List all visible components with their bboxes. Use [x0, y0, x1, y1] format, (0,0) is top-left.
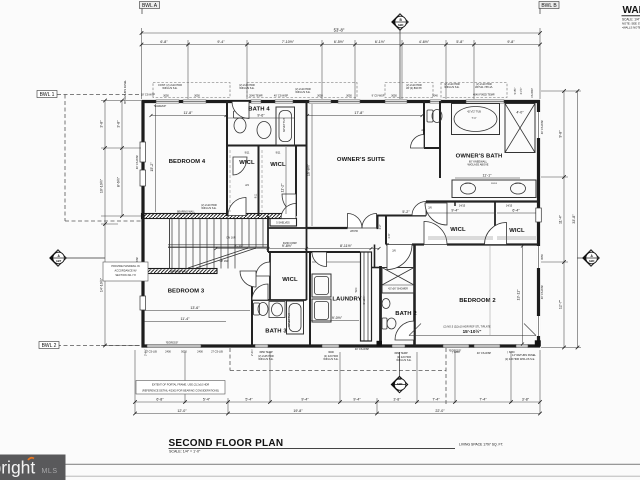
svg-text:W/FLUS S.E.: W/FLUS S.E.: [295, 90, 310, 94]
window: top wall 3050 bedroom4 left: [156, 100, 179, 104]
door: bath4 entry: [232, 102, 249, 119]
wall legend top-right clipped: [622, 5, 640, 29]
marker: A left: [50, 250, 105, 266]
svg-text:3'-2": 3'-2": [379, 224, 382, 229]
wall: WICL1/WICL2 divider vertical: [258, 146, 260, 217]
dashed: garage outline below right vertical: [445, 348, 447, 405]
wall: owners suite bottom left segment: [307, 227, 348, 229]
svg-text:9'-4": 9'-4": [217, 40, 225, 44]
svg-text:2'-0¾": 2'-0¾": [250, 349, 254, 356]
svg-text:WICL: WICL: [239, 160, 255, 166]
svg-text:8'-10": 8'-10": [234, 244, 244, 248]
svg-text:5050: 5050: [181, 350, 187, 354]
svg-text:BEDROOM 2: BEDROOM 2: [459, 298, 496, 304]
svg-text:10'-10½": 10'-10½": [100, 178, 104, 193]
svg-text:5'-0½": 5'-0½": [513, 87, 517, 94]
svg-text:CS-WSP: CS-WSP: [531, 88, 534, 98]
door: owners suite double right leaf: [362, 214, 377, 229]
svg-text:9/11: 9/11: [245, 151, 250, 155]
svg-text:15'-2": 15'-2": [150, 162, 154, 172]
svg-text:9'-4": 9'-4": [353, 398, 361, 402]
small ticks on interior dims: [150, 114, 525, 346]
svg-text:WDW: WDW: [465, 183, 472, 185]
svg-text:27 CS-LIB: 27 CS-LIB: [145, 350, 157, 354]
door: bedroom4 entry: [228, 198, 246, 216]
window: top wall 4040 fixed temp owners bath: [466, 100, 504, 104]
svg-text:3050: 3050: [391, 94, 397, 98]
note box: provide handrail: [103, 262, 148, 281]
laundry counter line: [312, 261, 360, 263]
svg-text:40' CS-WSP: 40' CS-WSP: [135, 155, 139, 170]
wall: WICL band divider vertical: [494, 202, 496, 245]
wall: WC left vertical: [423, 101, 425, 148]
svg-text:30"x60" TUB: 30"x60" TUB: [288, 313, 291, 327]
svg-text:8'-6½": 8'-6½": [117, 176, 121, 187]
svg-text:6'-1½": 6'-1½": [375, 40, 386, 44]
svg-text:BEARING WALL: BEARING WALL: [177, 210, 196, 213]
interior dimensions: [144, 104, 536, 344]
wall: vestibule south wall y=215.5: [378, 215, 427, 217]
stairs: middle rail line: [168, 246, 268, 248]
bath2 toilet: [382, 318, 387, 329]
window: bottom wall 3050 bedroom2 left: [443, 344, 469, 348]
wall: jog vertical down to corridor: [385, 216, 387, 245]
svg-text:7'-1": 7'-1": [471, 116, 476, 120]
door: linen closet: [281, 204, 296, 219]
svg-text:22'-0": 22'-0": [435, 409, 445, 413]
svg-text:WICL: WICL: [509, 228, 525, 234]
svg-text:*EGRESS*: *EGRESS*: [166, 340, 179, 344]
bath3 tub: [287, 301, 304, 334]
svg-text:15'-10½": 15'-10½": [463, 328, 482, 334]
bath4 tub: [276, 107, 295, 145]
svg-text:| 3050: | 3050: [452, 350, 460, 354]
svg-text:BEDROOM 3: BEDROOM 3: [168, 289, 205, 295]
svg-text:53'-8": 53'-8": [334, 28, 345, 33]
wall: laundry / bath2 plumbing wall: [361, 252, 372, 341]
svg-text:4'-0": 4'-0": [516, 111, 524, 115]
svg-text:DN 16R: DN 16R: [226, 236, 235, 240]
window: bottom wall 3050 bedroom2 right: [474, 344, 500, 348]
marker: B top: [392, 14, 408, 99]
door: bedroom3 entry: [240, 271, 256, 287]
stairs: lower flight treads: [171, 247, 173, 269]
bath2 sink: [382, 299, 390, 309]
wall: wicl3 left vertical: [269, 252, 271, 300]
dim: top extension lines: [141, 28, 143, 99]
wall: bath4 bottom horizontal: [227, 145, 306, 147]
dashed: first floor outline left horizontal: [65, 220, 141, 222]
label: BWL A: [140, 2, 160, 15]
svg-text:6'-8": 6'-8": [156, 398, 164, 402]
doors: [228, 102, 507, 341]
window: bottom wall 3060 temp bath2: [392, 344, 405, 348]
svg-text:EXTENT OF PORTAL FRAME. USE (2: EXTENT OF PORTAL FRAME. USE (2) 2x10 HDR: [152, 383, 210, 387]
bath4 sink: [257, 122, 271, 139]
svg-text:14/15: 14/15: [506, 204, 513, 208]
svg-text:ABD: ABD: [589, 259, 595, 263]
svg-text:40' CS-WSP: 40' CS-WSP: [355, 347, 370, 351]
svg-text:40' CS-WSP: 40' CS-WSP: [477, 351, 492, 355]
svg-text:W/FLUS S.E.: W/FLUS S.E.: [239, 86, 254, 90]
laundry dryer: [312, 299, 331, 322]
wall: laundry left vertical: [309, 252, 311, 346]
owners bath tub: [452, 104, 500, 135]
window: top wall 3050 owners suite right: [385, 100, 407, 104]
svg-text:3050: 3050: [317, 94, 323, 98]
door: WICL2: [282, 194, 296, 212]
window: right wall bedroom2 3050 lower: [537, 316, 541, 336]
svg-text:6'-4": 6'-4": [512, 209, 520, 213]
door: owners suite double left leaf: [348, 214, 363, 229]
svg-text:WICL: WICL: [282, 277, 298, 283]
svg-text:5 SHELVES: 5 SHELVES: [276, 222, 290, 225]
dashed header boxes above top wall: [153, 83, 507, 98]
svg-text:16'-8½": 16'-8½": [307, 163, 311, 176]
svg-text:30/30 COMP.: 30/30 COMP.: [283, 242, 298, 245]
svg-text:BATH 4: BATH 4: [248, 107, 270, 113]
svg-text:*EGRESS*: *EGRESS*: [154, 104, 167, 108]
wall: bedroom2 / bath2 left wall vertical: [413, 245, 416, 347]
wall: vestibule east vertical: [425, 202, 427, 216]
svg-text:SECOND FLOOR PLAN: SECOND FLOOR PLAN: [169, 438, 284, 449]
svg-text:7'-4": 7'-4": [479, 398, 487, 402]
title underline: [169, 448, 456, 450]
svg-text:5'-10½": 5'-10½": [362, 296, 366, 305]
svg-text:BEARING WALL: BEARING WALL: [170, 270, 189, 273]
dim: top row2 line: [142, 44, 541, 46]
svg-text:9'-8": 9'-8": [507, 40, 515, 44]
markers (shear wall diamonds): [50, 14, 599, 393]
svg-text:WICL: WICL: [270, 162, 286, 168]
svg-text:40' CS-WSP: 40' CS-WSP: [540, 285, 544, 300]
laundry washer: [312, 274, 331, 297]
svg-text:5'-2": 5'-2": [402, 210, 410, 214]
door: laundry entry: [312, 252, 327, 267]
svg-text:14" RETURN PANEL: 14" RETURN PANEL: [512, 353, 537, 357]
svg-text:W/FLUS S.E.: W/FLUS S.E.: [444, 85, 459, 89]
svg-text:(REFERENCE DETAIL 4/2303 FOR B: (REFERENCE DETAIL 4/2303 FOR BEARING CON…: [142, 389, 219, 393]
wall: bottom exterior wall: [142, 344, 541, 347]
svg-text:BATH 3: BATH 3: [265, 329, 287, 335]
wall: owners suite left vertical: [306, 101, 308, 229]
window: bottom wall 3000 laundry: [322, 344, 339, 348]
svg-text:•WALLS NOTED AS BEARING: •WALLS NOTED AS BEARING: [622, 25, 640, 29]
wall bracket symbols on left wall: [140, 142, 541, 310]
svg-text:5'-4": 5'-4": [245, 398, 253, 402]
svg-text:SECTION 311.7.8: SECTION 311.7.8: [115, 273, 136, 277]
svg-text:2040: 2040: [432, 94, 438, 98]
door: WICL1: [233, 157, 247, 175]
bath2 shower: [382, 268, 414, 294]
marker: B bottom: [391, 352, 407, 393]
bath4 toilet: [234, 111, 247, 118]
svg-text:4'-6½": 4'-6½": [419, 40, 430, 44]
svg-text:8'-11½": 8'-11½": [340, 244, 353, 248]
svg-text:W/FLUS S.E.: W/FLUS S.E.: [201, 206, 216, 210]
svg-text:ABD: ABD: [398, 23, 404, 27]
wall: laundry north wall: [296, 251, 360, 253]
svg-text:BWL A: BWL A: [142, 3, 158, 9]
dim: bottom rows: [135, 350, 540, 414]
dashed: first floor outline left vertical: [64, 95, 66, 222]
dashed: garage outline below horizontal: [230, 370, 446, 372]
svg-text:3050: 3050: [194, 94, 200, 98]
wall: bedroom4 bottom bearing wall hatched: [142, 214, 286, 274]
dim: right side vertical lines: [541, 91, 581, 348]
door: wicl3 entry: [256, 262, 270, 276]
svg-text:3'-8": 3'-8": [393, 398, 401, 402]
svg-text:W/FLUS S.E.: W/FLUS S.E.: [162, 86, 177, 90]
title block: [66, 438, 640, 476]
svg-text:9' CS-WSP: 9' CS-WSP: [372, 94, 385, 98]
svg-text:BWL B: BWL B: [541, 3, 557, 9]
label: BWL B: [539, 2, 559, 15]
wall: top exterior wall: [142, 100, 541, 103]
svg-text:ABT: ABT: [56, 259, 62, 263]
svg-text:7'-10½": 7'-10½": [282, 40, 295, 44]
wall: WICL2 right vertical: [295, 146, 297, 217]
svg-text:9'-0½": 9'-0½": [332, 316, 343, 320]
svg-text:9'-8": 9'-8": [559, 130, 563, 138]
svg-text:18' CS-WSP: 18' CS-WSP: [141, 93, 156, 97]
svg-text:BWL 2: BWL 2: [42, 343, 57, 349]
wall: bedroom2 north wall: [412, 243, 424, 245]
svg-text:BEDROOM 4: BEDROOM 4: [169, 159, 206, 165]
tiny annotations: interior: [166, 111, 522, 353]
svg-text:3'-8": 3'-8": [100, 120, 104, 128]
window: top wall 2040 WC: [430, 100, 441, 104]
wall: stairwell right vertical: [267, 216, 269, 252]
svg-text:9/11: 9/11: [255, 193, 258, 198]
owners bath shower: [505, 104, 535, 153]
separator line full width: [66, 463, 640, 465]
svg-text:13'-11": 13'-11": [517, 289, 521, 301]
svg-text:MLS: MLS: [42, 468, 58, 475]
dim: left side vertical lines: [101, 101, 141, 346]
label: BWL 1: [37, 91, 57, 99]
svg-text:3'-8": 3'-8": [117, 120, 121, 128]
svg-text:14/15: 14/15: [459, 204, 466, 208]
svg-text:40' CS-WSP: 40' CS-WSP: [540, 120, 544, 135]
svg-text:WALL LEGEND: WALL LEGEND: [623, 5, 640, 16]
wall: WC bottom: [424, 147, 440, 149]
window: right wall owners bath 2040: [537, 112, 541, 138]
svg-text:UP 16R: UP 16R: [220, 259, 229, 263]
dimension system: [142, 28, 541, 99]
svg-text:LAUNDRY: LAUNDRY: [332, 297, 361, 303]
svg-text:2/6: 2/6: [392, 249, 396, 253]
door: bath2 rear exit: [395, 321, 414, 340]
wall: hall south / wicl3 top: [268, 251, 296, 253]
svg-text:W/GLASS ABOVE: W/GLASS ABOVE: [468, 163, 489, 167]
svg-text:(2) NO.5 (2)2x10 HDR REF STL T: (2) NO.5 (2)2x10 HDR REF STL T/PLATE: [443, 325, 491, 329]
svg-text:OWNER'S BATH: OWNER'S BATH: [456, 154, 503, 160]
door: corridor to bath2: [387, 245, 412, 270]
owners bath vanity counter: [452, 180, 536, 198]
dim: top overall 53'-8" line: [142, 32, 541, 34]
note box: extent of portal frame: [136, 381, 225, 395]
svg-text:3050: 3050: [163, 94, 169, 98]
svg-text:2400: 2400: [165, 350, 171, 354]
svg-text:11'-1": 11'-1": [483, 174, 493, 178]
svg-text:SCALE: 1/4" = 1'-0": SCALE: 1/4" = 1'-0": [169, 450, 201, 454]
label: BWL 2: [39, 342, 59, 350]
dim ticks top row1: [140, 31, 144, 35]
wall: bedroom3 right vertical: [251, 271, 253, 346]
svg-text:6'-8": 6'-8": [160, 40, 168, 44]
wall: wicl3 / bath3 divider: [252, 299, 307, 301]
svg-text:17'-8": 17'-8": [354, 111, 364, 115]
window: right wall bedroom2 3050 upper: [537, 246, 541, 268]
dashed: garage outline below left vertical: [229, 348, 231, 371]
bath3 toilet: [254, 303, 260, 315]
svg-text:12'-0": 12'-0": [177, 409, 187, 413]
svg-text:9'-6": 9'-6": [257, 113, 265, 117]
stairs: left boundary: [169, 219, 171, 269]
wall: owners suite bottom right segment to corner: [377, 227, 379, 229]
svg-text:2'-6": 2'-6": [388, 233, 391, 238]
svg-text:2400: 2400: [197, 350, 203, 354]
window: bottom wall egress combo bedroom3: [147, 344, 201, 348]
svg-text:DXDX: DXDX: [491, 183, 498, 185]
fixtures: [234, 104, 537, 335]
door: wicl band right closet: [485, 223, 507, 245]
stairs: break lines diagonal: [188, 248, 248, 268]
wall: right exterior wall: [537, 100, 540, 348]
svg-text:BATH 2: BATH 2: [395, 311, 417, 317]
svg-text:2/6: 2/6: [428, 206, 432, 210]
svg-text:13'-6": 13'-6": [190, 306, 200, 310]
svg-text:5'-4": 5'-4": [203, 398, 211, 402]
svg-text:19'-8": 19'-8": [293, 409, 303, 413]
svg-text:7'-4": 7'-4": [432, 398, 440, 402]
wall: owners bath left vertical: [439, 101, 441, 178]
wall: linen closet 5 shelves box: [270, 219, 297, 227]
svg-text:40' CS-WSP: 40' CS-WSP: [274, 94, 289, 98]
door: water closet: [411, 135, 425, 149]
svg-text:3'-8": 3'-8": [522, 398, 530, 402]
window: top wall 3050 owners suite mid: [338, 100, 360, 104]
svg-text:3'-1½": 3'-1½": [519, 87, 523, 94]
dashed: BWL1 line to wall: [57, 94, 141, 96]
WC toilet: [427, 110, 433, 122]
svg-text:W/7x11 7/8 LVL: W/7x11 7/8 LVL: [475, 85, 493, 89]
svg-text:9/11: 9/11: [276, 151, 281, 155]
ext line inside bedroom2: [489, 246, 491, 335]
bath3 sink counter: [269, 302, 285, 318]
svg-text:60"x30" TUB: 60"x30" TUB: [283, 118, 286, 132]
marker: A right: [577, 250, 599, 266]
wall: wicl3 right vertical: [306, 228, 308, 300]
svg-text:3060 TEMP: 3060 TEMP: [394, 351, 408, 355]
svg-text:36" RETURN PANEL: 36" RETURN PANEL: [123, 79, 127, 104]
svg-text:2/8 PR: 2/8 PR: [350, 229, 358, 233]
svg-text:ACCORDANCE W/: ACCORDANCE W/: [115, 269, 137, 273]
svg-text:W/ (2) 802 PF: W/ (2) 802 PF: [406, 86, 422, 90]
watermark: bright MLS: [0, 455, 66, 480]
dim ticks top row2: [140, 43, 144, 47]
svg-text:42"x72" TUB: 42"x72" TUB: [467, 111, 481, 114]
wall: jog vertical at suite SE corner up: [377, 215, 379, 230]
svg-text:PROVIDE HANDRAIL IN: PROVIDE HANDRAIL IN: [111, 264, 139, 268]
wall: left exterior wall: [141, 100, 144, 348]
svg-text:9'-4": 9'-4": [451, 209, 459, 213]
svg-text:4040 FIXED TEMP.: 4040 FIXED TEMP.: [473, 93, 495, 97]
svg-text:WICL: WICL: [450, 227, 466, 233]
tiny annotations: bottom sill notes: [145, 347, 536, 362]
wall: bedroom3 top bearing wall hatched: [142, 269, 218, 274]
wall: owners bath south wall: [426, 200, 538, 202]
svg-text:3000: 3000: [328, 350, 334, 354]
dashed construction lines: [57, 95, 446, 406]
svg-text:bright: bright: [0, 458, 35, 478]
window: top wall 3050 bedroom4 right: [183, 100, 206, 104]
svg-text:3050: 3050: [540, 254, 544, 260]
wall: bedroom4 right / bath4 left vertical: [226, 101, 228, 216]
door: bath3 entry: [252, 284, 268, 300]
svg-text:(2) 2x6 HDR W/FLUS S.E.: (2) 2x6 HDR W/FLUS S.E.: [505, 357, 535, 361]
svg-text:OWNER'S SUITE: OWNER'S SUITE: [337, 157, 385, 163]
door: suite to bath vestibule: [412, 202, 426, 216]
tiny annotations: top header notes: [141, 82, 495, 108]
svg-text:W/FLUS S.E.: W/FLUS S.E.: [396, 358, 411, 362]
svg-text:33'-8": 33'-8": [572, 214, 576, 224]
svg-text:11'-4": 11'-4": [181, 317, 191, 321]
window: top wall 2040 bath4: [251, 100, 261, 104]
svg-text:11'-8": 11'-8": [184, 111, 194, 115]
stairs: [168, 219, 268, 269]
window: bottom wall return panel bedroom2: [516, 344, 528, 348]
svg-text:11'-2": 11'-2": [281, 183, 285, 193]
svg-text:6'-5½": 6'-5½": [334, 40, 345, 44]
svg-text:W/D: W/D: [355, 287, 358, 292]
svg-text:5'-8": 5'-8": [456, 40, 464, 44]
wall: WICL band left vertical: [454, 202, 456, 207]
svg-text:2/4: 2/4: [245, 183, 249, 187]
svg-text:9'-4": 9'-4": [301, 398, 309, 402]
door: wicl band left closet: [425, 203, 447, 225]
post: bedroom2 SE corner: [535, 340, 541, 346]
BWL labels: [37, 2, 559, 350]
svg-text:W/FLUS S.E.: W/FLUS S.E.: [258, 357, 273, 361]
dashed: BWL2 line to wall: [57, 345, 140, 347]
window: top wall 3050 owners suite left: [309, 100, 331, 104]
svg-text:42"x36" SHOWER: 42"x36" SHOWER: [388, 288, 408, 291]
svg-text:W/FLUS S.E.: W/FLUS S.E.: [323, 357, 338, 361]
svg-text:3050 TEMP: 3050 TEMP: [259, 350, 273, 354]
svg-text:11'-4": 11'-4": [559, 214, 563, 224]
svg-text:2040 TEMP.: 2040 TEMP.: [249, 94, 263, 98]
wall: corridor south wall to bath2: [386, 244, 389, 246]
svg-text:LIVING SPACE 1797 SQ. FT.: LIVING SPACE 1797 SQ. FT.: [459, 442, 503, 446]
wicl band shelf/rod lines: [230, 150, 536, 239]
room labels: [168, 107, 525, 335]
door: bedroom2 entry: [424, 222, 447, 245]
svg-text:3050: 3050: [346, 94, 352, 98]
svg-text:12'-7": 12'-7": [559, 299, 563, 309]
svg-text:ABD: ABD: [397, 382, 403, 386]
window: bottom wall 3050 temp bath3: [255, 344, 268, 348]
svg-text:27 CS-LIB: 27 CS-LIB: [211, 350, 223, 354]
svg-text:BWL 1: BWL 1: [40, 92, 55, 98]
svg-text:WDW: WDW: [515, 183, 522, 185]
